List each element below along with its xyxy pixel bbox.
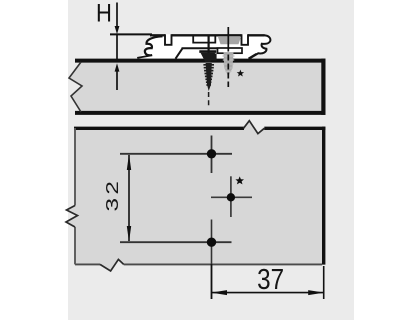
dimension 32 down arrowhead [127, 226, 131, 242]
board cross-section fill (side view, with left break edge) [69, 62, 322, 113]
panel bottom edge break zigzag [100, 259, 124, 271]
dimension H line through gap [116, 35, 118, 59]
dimension H vertical line above [116, 3, 118, 28]
plate left slot [165, 34, 172, 45]
dimension H down arrowhead [115, 26, 120, 34]
panel left edge [74, 128, 76, 264]
dimension 32 up arrowhead [127, 154, 131, 170]
screw axis dashes below tip [208, 92, 210, 106]
board bottom edge [75, 111, 326, 115]
plate top flange line [150, 34, 165, 36]
panel top edge break zigzag [244, 121, 265, 134]
grey dowel head under flange [218, 37, 241, 44]
plate base ledge line [182, 47, 218, 49]
top drill position cross lines [120, 153, 232, 155]
panel bottom edge [75, 263, 322, 265]
dimension 37 line [212, 292, 324, 294]
top drill position dot [207, 149, 216, 158]
dimension 37 extension line right [323, 266, 325, 299]
bottom drill position cross lines [120, 241, 232, 243]
svg-text:37: 37 [257, 263, 284, 295]
plate right wing curl [250, 35, 271, 58]
panel right edge [322, 127, 325, 265]
panel top edge left part [74, 127, 244, 130]
board left break line [69, 62, 82, 112]
mounting plate silhouette (white body) [138, 35, 271, 58]
asterisk in side view [237, 70, 244, 77]
plate centre step recess [193, 36, 215, 42]
asterisk in top view [235, 176, 244, 184]
grey dowel shank in board [224, 53, 234, 77]
dimension 37 extension line left [211, 264, 213, 299]
plate base left dark wedge [210, 54, 217, 61]
svg-text:H: H [96, 0, 112, 27]
dimension 37 right arrowhead [308, 290, 324, 295]
dowel centreline (dash-dot) [227, 27, 229, 87]
dowel shank thread ticks [223, 56, 235, 72]
panel left edge break zigzag [66, 206, 78, 228]
plate base right leg [249, 54, 257, 59]
cup centre cross lines [211, 196, 252, 198]
panel top view fill (with break edges) [66, 121, 324, 271]
board top edge [75, 59, 326, 63]
board right edge [321, 59, 325, 115]
dimension H extension line (top of plate) [110, 33, 152, 35]
plate right slot [242, 34, 249, 45]
svg-text:32: 32 [102, 178, 122, 212]
plate left wing lower tail [137, 56, 150, 58]
panel top edge right part [264, 127, 325, 130]
dimension 37 left arrowhead [211, 290, 227, 295]
screw shaft above head [208, 37, 210, 63]
cup centre dot [227, 193, 235, 201]
plate left wing screw-hole section squiggle [145, 36, 163, 55]
diagram background panel [68, 0, 354, 320]
screw thread ridges [203, 65, 214, 85]
dimension 32 line [128, 155, 130, 241]
bottom drill position dot [207, 238, 216, 247]
plate base left leg [176, 48, 183, 58]
screw head bar [199, 50, 216, 53]
screw threaded shank in board [206, 63, 212, 91]
dowel flange white bar [218, 48, 243, 53]
dimension H vertical line below [116, 70, 118, 90]
dimension H up arrowhead [115, 63, 120, 71]
screw head neck taper [201, 53, 216, 62]
